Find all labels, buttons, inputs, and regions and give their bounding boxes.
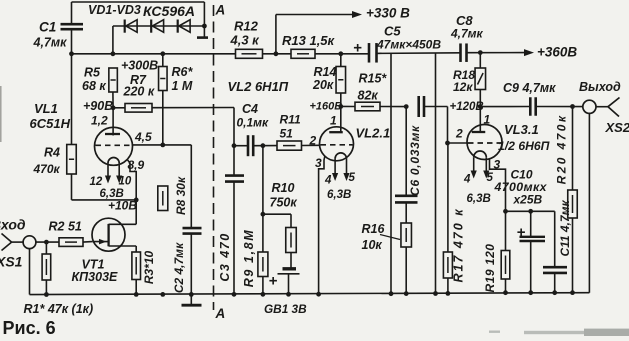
svg-text:220 к: 220 к bbox=[123, 85, 155, 99]
svg-text:Выход: Выход bbox=[579, 80, 621, 94]
svg-text:10к: 10к bbox=[362, 238, 383, 252]
svg-text:R3*10: R3*10 bbox=[142, 250, 156, 284]
svg-text:Вход: Вход bbox=[0, 217, 26, 233]
svg-text:1: 1 bbox=[330, 114, 337, 128]
svg-text:3: 3 bbox=[315, 156, 322, 170]
svg-text:4: 4 bbox=[324, 175, 332, 187]
svg-text:R6*: R6* bbox=[172, 65, 194, 79]
svg-text:R12: R12 bbox=[234, 19, 259, 34]
svg-text:3: 3 bbox=[494, 158, 501, 172]
svg-text:0,1мк: 0,1мк bbox=[237, 116, 270, 130]
svg-text:10: 10 bbox=[119, 176, 132, 188]
svg-text:+10В: +10В bbox=[108, 199, 137, 213]
svg-text:GВ1 3В: GВ1 3В bbox=[264, 302, 307, 316]
svg-text:12: 12 bbox=[90, 176, 103, 188]
svg-text:XS2: XS2 bbox=[605, 120, 629, 135]
svg-text:R10: R10 bbox=[272, 181, 295, 195]
svg-text:1 М: 1 М bbox=[172, 79, 193, 93]
svg-text:С11 4,7мк: С11 4,7мк bbox=[558, 200, 572, 257]
svg-text:82к: 82к bbox=[358, 89, 379, 103]
svg-text:+360В: +360В bbox=[537, 45, 577, 60]
svg-text:+: + bbox=[269, 273, 278, 290]
svg-text:VL2.1: VL2.1 bbox=[356, 126, 391, 141]
svg-text:1: 1 bbox=[484, 113, 491, 127]
svg-text:4,5: 4,5 bbox=[134, 130, 152, 144]
svg-text:R14: R14 bbox=[314, 65, 337, 79]
svg-text:750к: 750к bbox=[270, 196, 298, 210]
svg-text:+160В: +160В bbox=[310, 101, 343, 113]
svg-text:+90В: +90В bbox=[83, 99, 113, 113]
svg-text:С9 4,7мк: С9 4,7мк bbox=[503, 81, 556, 95]
svg-text:КП303Е: КП303Е bbox=[72, 270, 119, 284]
svg-text:+330 В: +330 В bbox=[366, 6, 410, 21]
svg-text:С6 0,033мк: С6 0,033мк bbox=[408, 125, 422, 196]
svg-text:R8 30к: R8 30к bbox=[174, 176, 188, 215]
svg-text:4,7мк: 4,7мк bbox=[450, 27, 484, 41]
svg-text:VL1: VL1 bbox=[34, 101, 58, 116]
svg-text:6С51Н: 6С51Н bbox=[30, 116, 71, 131]
svg-text:R5: R5 bbox=[84, 66, 101, 80]
svg-text:х25В: х25В bbox=[513, 193, 543, 207]
svg-text:R13 1,5к: R13 1,5к bbox=[282, 33, 336, 48]
svg-text:470к: 470к bbox=[33, 162, 61, 176]
svg-text:VL3.1: VL3.1 bbox=[504, 122, 539, 137]
svg-text:VL2 6Н1П: VL2 6Н1П bbox=[228, 79, 289, 94]
svg-text:R15*: R15* bbox=[359, 72, 388, 86]
svg-text:68 к: 68 к bbox=[82, 79, 106, 93]
svg-text:Рис. 6: Рис. 6 bbox=[3, 318, 56, 336]
svg-text:20к: 20к bbox=[312, 78, 334, 92]
svg-text:R17 470 к: R17 470 к bbox=[452, 207, 466, 282]
svg-text:6,3В: 6,3В bbox=[467, 193, 491, 205]
svg-text:R4: R4 bbox=[44, 146, 60, 160]
svg-text:XS1: XS1 bbox=[0, 254, 23, 270]
svg-text:С2 4,7мк: С2 4,7мк bbox=[172, 242, 186, 293]
svg-text:2: 2 bbox=[309, 134, 317, 148]
svg-text:С5: С5 bbox=[384, 24, 401, 39]
svg-text:+: + bbox=[353, 40, 362, 57]
svg-text:А: А bbox=[215, 3, 226, 18]
svg-text:R11: R11 bbox=[280, 113, 301, 127]
svg-text:R1* 47к (1к): R1* 47к (1к) bbox=[24, 302, 94, 316]
svg-text:1,2: 1,2 bbox=[91, 114, 108, 128]
svg-text:2: 2 bbox=[455, 127, 463, 141]
svg-text:С1: С1 bbox=[39, 20, 56, 35]
svg-text:R19 120: R19 120 bbox=[483, 244, 497, 293]
svg-text:VD1-VD3: VD1-VD3 bbox=[88, 3, 141, 17]
svg-text:А: А bbox=[215, 306, 226, 321]
svg-text:4,7мк: 4,7мк bbox=[33, 36, 68, 50]
svg-text:8,9: 8,9 bbox=[128, 158, 145, 172]
svg-text:С3 470: С3 470 bbox=[218, 232, 232, 281]
svg-text:R16: R16 bbox=[362, 222, 386, 236]
svg-text:R9 1,8М: R9 1,8М bbox=[242, 229, 256, 287]
svg-text:КС596А: КС596А bbox=[143, 3, 195, 19]
svg-text:6,3В: 6,3В bbox=[327, 189, 351, 201]
svg-text:+120В: +120В bbox=[450, 101, 484, 113]
svg-text:5: 5 bbox=[349, 172, 356, 184]
svg-text:R2 51: R2 51 bbox=[49, 220, 82, 234]
svg-text:1/2 6Н6П: 1/2 6Н6П bbox=[498, 139, 550, 153]
svg-text:4,3 к: 4,3 к bbox=[230, 33, 261, 48]
svg-text:5: 5 bbox=[487, 172, 494, 184]
svg-text:12к: 12к bbox=[453, 80, 473, 94]
svg-text:+: + bbox=[517, 224, 526, 241]
svg-text:+300В: +300В bbox=[121, 59, 158, 73]
svg-text:51: 51 bbox=[280, 127, 294, 141]
svg-text:4: 4 bbox=[463, 174, 471, 186]
svg-text:R20 470к: R20 470к bbox=[555, 114, 569, 185]
svg-text:47мк×450В: 47мк×450В bbox=[376, 38, 441, 52]
svg-text:С4: С4 bbox=[242, 102, 258, 116]
